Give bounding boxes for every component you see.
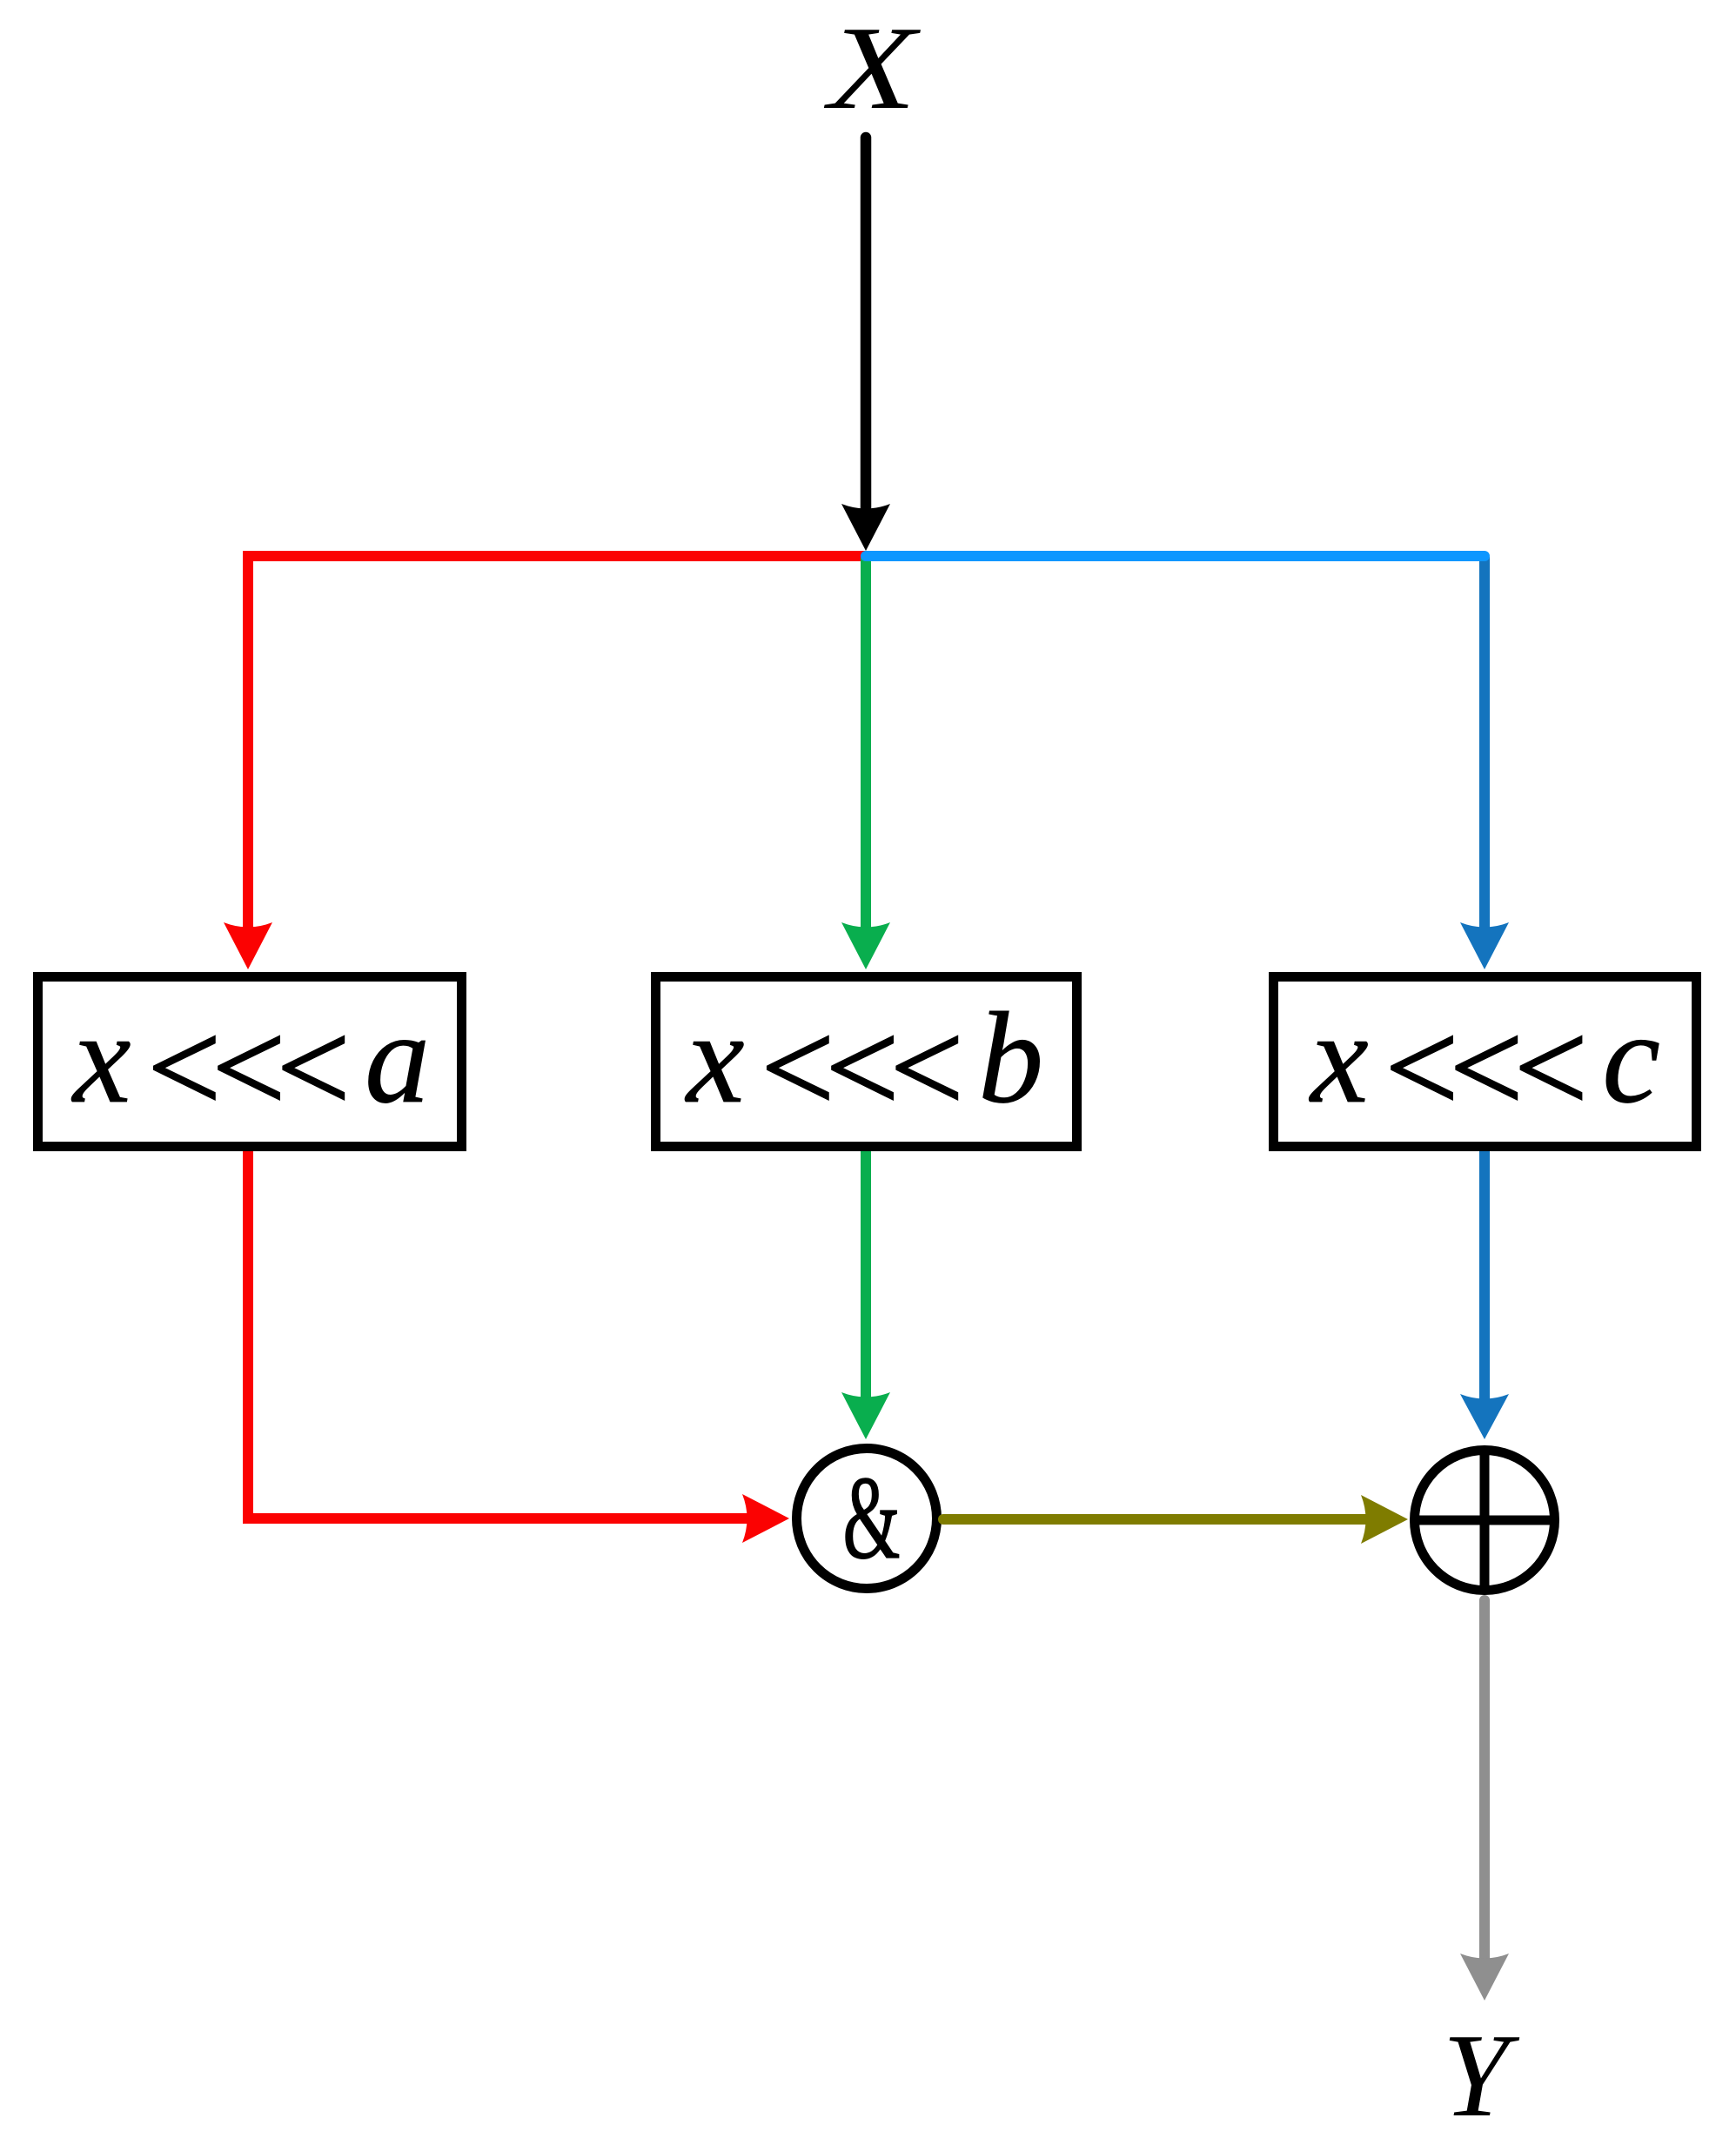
arrowhead green down into AND (841, 1392, 890, 1439)
svg-text:Y: Y (1443, 2009, 1520, 2138)
svg-text:x <<< c: x <<< c (1309, 986, 1659, 1140)
arrowhead black down at junction (841, 504, 890, 551)
wire: input X vertical (black) (861, 137, 872, 520)
XOR cross horizontal (1415, 1516, 1555, 1525)
wire: branch to x<<<c, light blue horizontal (866, 551, 1485, 561)
XOR cross vertical (1480, 1451, 1490, 1591)
svg-text:&: & (842, 1451, 900, 1584)
wire: branch to x<<<a, red horizontal + vertical (248, 556, 866, 938)
wire: branch to x<<<c, dark blue vertical (1479, 557, 1490, 938)
arrowhead olive right into XOR (1361, 1495, 1408, 1544)
operator: AND circle (797, 1449, 937, 1589)
box: rotation x<<<a (38, 977, 462, 1147)
label & (842, 1451, 900, 1584)
arrowhead red right into AND (742, 1494, 789, 1543)
arrowhead red down into box a (224, 922, 272, 969)
arrowhead gray down to Y (1460, 1954, 1509, 2001)
arrowhead blue down into XOR (1460, 1394, 1509, 1439)
wire: XOR output gray down to Y (1479, 1600, 1490, 1969)
wire: box a output red, down then right into AND (248, 1151, 757, 1518)
svg-text:x <<< a: x <<< a (71, 986, 426, 1140)
operator: XOR circle (1415, 1451, 1555, 1591)
svg-text:x <<< b: x <<< b (685, 986, 1040, 1140)
wire: box b output green, down into AND (861, 1151, 871, 1408)
wire: box c output blue, down into XOR (1479, 1151, 1490, 1410)
arrowhead dark blue down into box c (1460, 922, 1509, 969)
svg-text:X: X (823, 2, 922, 134)
node X label (823, 2, 922, 134)
wire: branch to x<<<b, green vertical (861, 558, 871, 938)
box: rotation x<<<c (1274, 977, 1697, 1147)
arrowhead green down into box b (841, 922, 890, 969)
wire: AND output olive to XOR (943, 1514, 1377, 1525)
box: rotation x<<<b (656, 977, 1077, 1147)
